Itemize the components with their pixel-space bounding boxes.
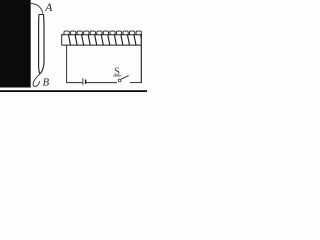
switch pivot contact circle [118, 79, 121, 82]
svg-text:B: B [43, 77, 50, 88]
coil winding diagonals [69, 35, 142, 46]
svg-text:S: S [114, 66, 120, 78]
wire: hook at tube bottom [33, 73, 40, 86]
bottom rule line [0, 90, 147, 92]
coil top line [62, 34, 142, 36]
coil left edge [61, 34, 63, 45]
switch lever (open) [121, 76, 129, 80]
label S underline [113, 75, 121, 77]
tube AB (thin vertical tube) [39, 15, 44, 74]
svg-text:A: A [44, 1, 53, 14]
wire: right vertical (coil right end down to bottom) [140, 34, 142, 83]
coil turn humps [64, 31, 141, 35]
wire: curved lead from wall to tube top [31, 3, 43, 13]
coil bottom line [62, 44, 142, 46]
background [0, 0, 147, 94]
battery long plate (+) [82, 78, 84, 85]
battery short plate (-) [85, 80, 87, 84]
black mask bar (left wall) [0, 0, 31, 88]
wire: battery to switch [86, 82, 117, 84]
wire: bottom left segment to battery [66, 82, 82, 84]
wire: left vertical from coil to bottom [66, 45, 68, 82]
wire: bottom right segment [130, 82, 141, 84]
